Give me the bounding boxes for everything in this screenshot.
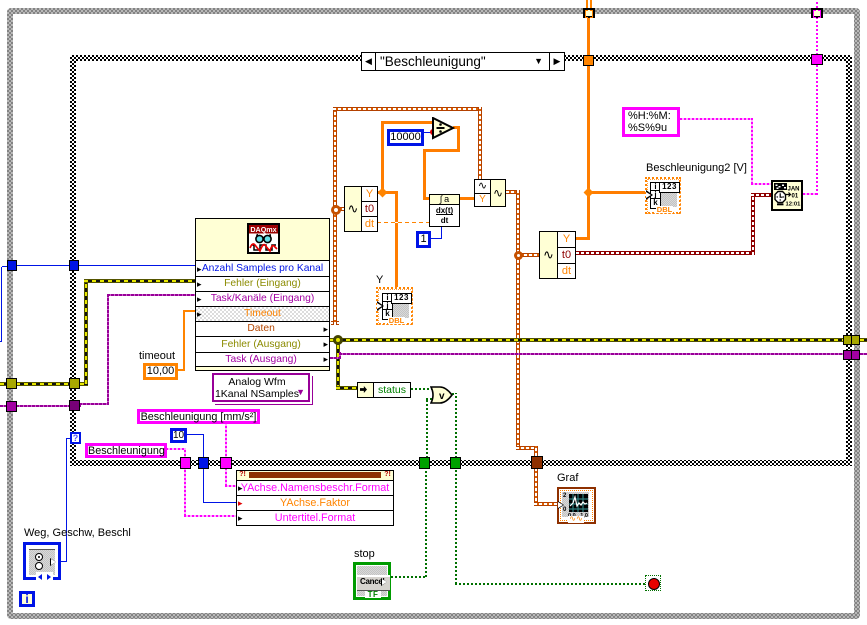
wire: Or output (green dotted) down through tunnel <box>452 393 456 395</box>
status unbundle node <box>357 382 411 398</box>
tunnel: waveform on case bottom <box>531 456 543 469</box>
label stop <box>354 549 375 560</box>
wire: task out (purple) step up and across <box>330 357 341 359</box>
tunnel: task on case left <box>69 400 80 411</box>
wire: Beschleunigung string (pink) to tunnel <box>166 448 186 450</box>
wire: orange riser x588 case to top edge <box>587 65 590 240</box>
wire: dt (orange dashed) from GetWfm1 to integral <box>377 222 430 223</box>
wire: error out (olive) beyond loop to image edge <box>860 338 867 342</box>
label Beschleunigung2 [V] <box>646 163 747 174</box>
wire: task in (purple) into Task/Kanaele (Eingang) <box>107 294 196 296</box>
case selector terminal ? <box>70 432 81 444</box>
tunnel: orange indexing tunnel on loop top <box>583 8 595 18</box>
tunnel: error on loop left <box>6 378 17 389</box>
wire: boolean from tunnel up into Or lower input <box>426 398 428 458</box>
timeout label <box>139 351 175 362</box>
tunnel: green 2 on case bottom (condition) <box>450 457 461 469</box>
wire: error out (olive) across to right tunnels <box>330 338 852 342</box>
Build Waveform node <box>474 179 506 207</box>
wire: orange branch into Beschleunigung2 terminal <box>590 191 645 194</box>
wire: Anzahl Samples pro Kanal (blue) into DAQmx <box>8 265 197 266</box>
wire: Build Waveform output (waveform) right and down <box>506 190 520 194</box>
label Graf <box>557 473 578 484</box>
stop condition terminal (red) <box>645 575 661 591</box>
wire: sample count (blue) tunnel stub <box>2 266 8 267</box>
wire: task in (purple) short right of case tunnel <box>79 403 109 405</box>
junction: orange diamond Y2 <box>584 188 594 198</box>
label Y <box>376 275 383 286</box>
integral x(t) node <box>429 194 460 227</box>
svg-text:DAQmx: DAQmx <box>250 225 276 234</box>
coercion dot divide <box>430 129 436 135</box>
wire: format string (pink) into Format Date/Time <box>680 118 753 120</box>
wire: pink into YAchse.Namensbeschr.Format <box>225 485 236 487</box>
timeout constant 10,00 <box>143 363 178 380</box>
tunnel: orange on case top <box>583 55 594 66</box>
numeric constant 10 <box>170 428 187 443</box>
tunnel: green 1 on case bottom (stop) <box>419 457 430 469</box>
wire: loop condition boolean to stop terminal <box>455 468 457 584</box>
case structure border <box>70 55 852 466</box>
wire: error in (olive) vertical riser x86 <box>84 279 88 384</box>
wire: t0 timestamp from GetWfm2 to Format Date/Time <box>576 251 755 255</box>
tunnel: blue on loop left <box>7 260 17 271</box>
wire: waveform into Graf <box>534 502 558 506</box>
numeric constant 1 <box>416 231 431 248</box>
wire: error in (olive) from left edge to DAQmx <box>0 382 88 386</box>
Get Waveform Components 2 <box>539 231 576 279</box>
wire: sample count (blue) bottom jog off-image <box>0 341 2 342</box>
wire: Y array (orange) from GetWfm1 up to divide <box>381 121 384 193</box>
junction: waveform ring at GetWfm2 branch <box>514 251 523 260</box>
wire: enum selector (blue) from Weg terminal up to case selector <box>60 561 67 562</box>
DAQmx icon <box>247 223 280 254</box>
svg-text:v: v <box>439 391 445 402</box>
wire: waveform jog right above case bottom <box>516 446 538 450</box>
tunnel: pink 1 on case bottom <box>180 457 191 469</box>
wire: pink into Untertitel.Format <box>184 515 236 517</box>
loop iteration terminal i <box>19 591 35 607</box>
wire: Y output stub (orange) <box>377 191 398 194</box>
tunnel: task on loop left <box>6 401 17 412</box>
wire: task in (purple) vertical riser x108 <box>107 294 109 405</box>
wire: Y2 (orange) from GetWfm2 to riser <box>576 237 589 240</box>
wire: Y array (orange) down to Y terminal <box>395 191 398 287</box>
junction: orange diamond Y1 <box>378 188 388 198</box>
junction: waveform ring at GetWfm1 input <box>331 205 341 215</box>
wire: error branch (olive) down to status unbundle <box>336 341 340 389</box>
wire: time string (pink) output up the right side <box>803 193 818 195</box>
wire: task out (purple) beyond loop <box>860 353 867 355</box>
Format Date/Time String node <box>771 180 803 211</box>
string constant Beschleunigung [mm/s2] <box>137 409 260 424</box>
wire: divide output (orange) routed to integral <box>453 126 460 129</box>
tunnel: blue on case bottom <box>198 457 209 469</box>
tunnel: magenta on case top <box>811 54 823 65</box>
svg-text:01: 01 <box>792 194 799 200</box>
wire: Beschleunigung [mm/s2] (pink) down to tunnel <box>225 424 227 460</box>
wire: task in (purple) from left edge <box>0 405 81 407</box>
divide function <box>432 117 455 140</box>
wire: waveform stub into GetWfm2 <box>519 253 540 257</box>
Beschleunigung2 array indicator terminal <box>645 177 681 214</box>
junction: olive ring at error out <box>333 335 343 345</box>
tunnel: pink 2 on case bottom <box>220 457 232 469</box>
DAQmx Read node <box>195 218 330 371</box>
string constant %H:%M:%S%9u <box>622 107 680 137</box>
wire: status boolean (green dotted) to Or <box>411 388 432 390</box>
svg-text:12:01: 12:01 <box>786 202 802 208</box>
wire: error in (olive) into Fehler (Eingang) <box>84 279 196 283</box>
wire: timeout (orange) from 10,00 constant <box>178 369 185 371</box>
case selector label <box>361 52 565 71</box>
numeric constant 10000 <box>387 129 424 146</box>
wire: waveform stub into Get Waveform Components 1 <box>337 207 345 211</box>
svg-text:JAN: JAN <box>788 187 800 193</box>
tunnel pair: error on case+loop right <box>843 335 860 345</box>
string constant Beschleunigung <box>85 443 167 458</box>
Or function <box>430 386 454 404</box>
tunnel: blue on case left <box>69 260 79 271</box>
Y array indicator terminal <box>376 287 413 325</box>
Get Waveform Components 1 <box>344 186 378 232</box>
wire: sample count (blue) outside-left vertical <box>1 267 2 342</box>
tunnel: error on case left <box>69 378 80 389</box>
wire: 10000 (blue) into divide with coercion dot <box>424 132 434 133</box>
tunnel: magenta indexing tunnel on loop top <box>811 8 823 18</box>
wire: waveform down into Build Waveform top input <box>478 107 482 179</box>
wire: Daten waveform from DAQmx up and across top <box>331 321 339 325</box>
tunnel pair: task on case+loop right <box>843 350 860 360</box>
Graf indicator terminal <box>557 487 596 524</box>
Weg selector control terminal <box>23 542 61 580</box>
wire: 10 (blue) to YAchse.Faktor <box>187 434 204 435</box>
property node Graph <box>236 470 394 526</box>
wire: integral output (orange) to Build Waveform Y <box>460 197 474 200</box>
wire: 1 (blue) into integral <box>430 238 442 239</box>
polymorphic selector: Analog Wfm 1Kanal NSamples <box>212 373 310 402</box>
stop button terminal <box>353 562 391 600</box>
label Weg, Geschw, Beschl <box>24 528 131 539</box>
wire: stop button boolean up to tunnel <box>391 576 426 578</box>
